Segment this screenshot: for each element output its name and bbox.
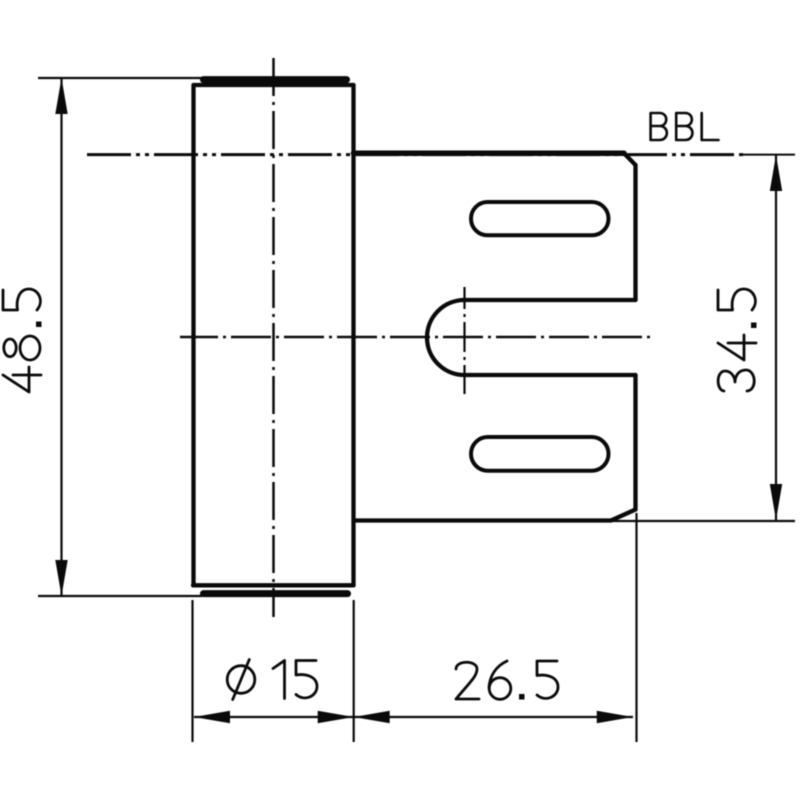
notch bottom edge: [465, 373, 636, 377]
notch arc vertical centerline: [463, 287, 465, 394]
34.5 arrowhead down: [770, 484, 782, 520]
plate right edge lower segment: [633, 375, 637, 510]
vertical centerline of barrel: [272, 58, 275, 617]
barrel right edge: [351, 85, 355, 585]
barrel top weld cap: [204, 76, 347, 83]
barrel bottom edge: [193, 583, 354, 587]
plate bottom-right chamfer: [611, 510, 636, 521]
barrel bottom weld cap: [204, 590, 348, 597]
48.5 dimension line: [60, 78, 62, 596]
48.5 dimension text: [3, 289, 42, 392]
lower screw slot: [471, 437, 609, 471]
plate top-right chamfer: [624, 153, 636, 165]
26.5 arrowhead right: [597, 711, 633, 723]
34.5 dimension text: [718, 289, 757, 391]
bottom dimension line: [194, 716, 633, 718]
BBL label text: [651, 113, 719, 140]
notch top edge: [465, 298, 636, 302]
48.5 arrowhead up: [55, 78, 67, 114]
notch rounded end arc: [427, 300, 464, 375]
barrel end caps: [204, 80, 348, 594]
26.5 arrowhead left: [354, 711, 390, 723]
34.5 arrowhead up: [770, 155, 782, 191]
o15 dimension text: [227, 660, 317, 700]
o15 arrowhead left: [194, 711, 230, 723]
48.5 arrowhead down: [55, 560, 67, 596]
o15 right / 26.5 left shared extension line: [353, 600, 355, 742]
barrel top edge: [194, 83, 354, 87]
o15 arrowhead right: [318, 711, 354, 723]
26.5 dimension text: [456, 661, 558, 700]
barrel left edge: [191, 85, 195, 585]
48.5 bottom extension line: [38, 595, 202, 597]
BBL reference centerline (horizontal, dash-dot-dot): [87, 153, 745, 156]
34.5 bottom extension line: [611, 520, 795, 522]
middle horizontal centerline: [180, 336, 652, 339]
plate bottom edge: [354, 518, 612, 522]
34.5 dimension line: [775, 155, 777, 520]
plate top edge: [354, 150, 625, 156]
o15 left extension line: [191, 600, 193, 742]
26.5 right extension line: [635, 513, 637, 742]
34.5 top extension line: [741, 154, 795, 156]
48.5 top extension line: [38, 77, 202, 79]
plate right edge upper segment: [633, 165, 637, 300]
upper screw slot: [471, 202, 609, 235]
